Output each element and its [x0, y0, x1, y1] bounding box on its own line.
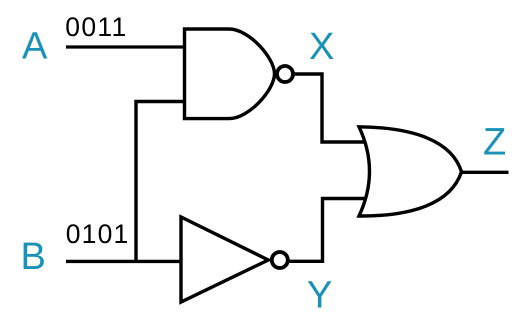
wire X (NAND output to OR top input) [292, 74, 368, 142]
bubble U1 output [277, 66, 293, 82]
wire Y (inverter output to OR bottom input) [287, 199, 368, 262]
svg-text:Z: Z [483, 122, 506, 164]
bubble U2 output [272, 252, 288, 268]
svg-text:0101: 0101 [66, 219, 130, 249]
svg-text:Y: Y [307, 275, 332, 317]
inverter U2 [181, 217, 268, 302]
svg-text:B: B [21, 236, 46, 278]
svg-text:0011: 0011 [65, 12, 127, 42]
wire A input [66, 45, 200, 48]
wire B input [66, 260, 200, 263]
or-gate U3 [359, 127, 462, 216]
wire Z output [459, 171, 509, 174]
nand-gate U1 [185, 29, 275, 119]
wire branch B to NAND second input [136, 102, 200, 262]
svg-text:X: X [309, 26, 334, 68]
svg-text:A: A [22, 26, 48, 68]
